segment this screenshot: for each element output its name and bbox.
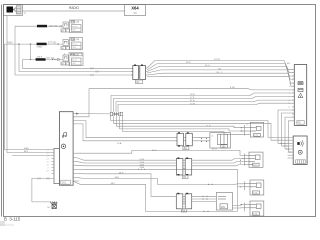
row C label box — [181, 209, 187, 212]
wire strip pin 13 to phone pin 3 — [278, 110, 294, 143]
wire MAS ground feed down left side — [5, 44, 52, 150]
connector box 264 — [61, 54, 70, 66]
svg-text:7: 7 — [289, 90, 290, 92]
wire splice to strip pin 8 — [111, 93, 294, 112]
wire 7A radio to strip pin 4 — [147, 70, 294, 79]
unit icon circle — [61, 144, 65, 148]
strip pins — [292, 69, 294, 121]
svg-text:12: 12 — [288, 107, 290, 109]
right column box B3 — [250, 180, 264, 195]
wire unit to bottom junction bus — [76, 168, 238, 170]
svg-text:hp ar: hp ar — [72, 60, 77, 62]
svg-text:256 B: 256 B — [37, 57, 43, 59]
wire stub phone pin 8 — [288, 157, 291, 159]
strip label box — [297, 121, 304, 125]
wire 38E unit to box 173 — [76, 177, 245, 184]
svg-text:RADIO: RADIO — [69, 6, 80, 10]
svg-text:21 A: 21 A — [140, 158, 145, 161]
row C wires to box — [192, 196, 217, 201]
svg-text:3: 3 — [289, 76, 290, 78]
svg-text:56 G: 56 G — [205, 65, 210, 67]
connector icon in title — [7, 6, 22, 15]
wire splice to strip pin 11 — [118, 103, 294, 112]
svg-text:38 F: 38 F — [111, 183, 116, 185]
row B label box — [183, 175, 189, 178]
connector pair row C — [176, 194, 191, 209]
wire splice to box 171 pin 2 — [120, 116, 245, 131]
wire front-right speaker to radio connector pin 2 — [19, 44, 133, 71]
svg-text:9: 9 — [289, 96, 290, 98]
speaker unit box AVG — [70, 20, 83, 33]
wire — [23, 59, 63, 61]
wire stub phone pin 7 — [288, 154, 291, 156]
row A wires to box — [194, 138, 210, 141]
wire third feed to unit — [12, 155, 52, 157]
svg-text:11: 11 — [288, 103, 290, 105]
phone pins — [291, 137, 293, 158]
right column box B2 — [249, 152, 263, 167]
svg-text:180: 180 — [222, 145, 227, 148]
speaker unit box AR — [69, 53, 83, 66]
svg-text:X64: X64 — [131, 6, 139, 11]
scan smudge bottom-left — [0, 221, 5, 226]
strip warning triangle — [298, 93, 303, 97]
right column box B4 — [250, 201, 264, 216]
wire 38F unit to bottom bus — [73, 181, 237, 211]
speaker row 3 — [23, 53, 84, 66]
speaker unit box AVD — [70, 38, 83, 50]
svg-text:5: 5 — [289, 83, 290, 85]
unit right pins top group — [73, 114, 75, 124]
wires into B1 — [240, 128, 244, 131]
title block — [4, 5, 146, 16]
svg-text:7 A: 7 A — [218, 68, 222, 71]
wire supply feed down left side — [7, 16, 52, 153]
junction dots on relay feed line — [208, 184, 209, 185]
unit icon music — [62, 133, 66, 138]
junction circle — [57, 58, 60, 61]
svg-text:B 3-115: B 3-115 — [4, 217, 21, 222]
unit left connector column — [54, 149, 59, 184]
wire splice to phone pin 2 — [114, 116, 291, 140]
svg-text:25 A: 25 A — [117, 142, 122, 145]
wire — [5, 43, 63, 45]
svg-text:36 G: 36 G — [212, 149, 217, 151]
svg-text:577 HD: 577 HD — [48, 41, 56, 44]
connector pair row B — [176, 159, 191, 176]
wire 38D unit to pair R4 pin 1 — [76, 173, 177, 196]
svg-text:36 G: 36 G — [152, 150, 157, 152]
wire — [15, 25, 63, 27]
connector pair row A — [177, 133, 192, 146]
wire bridge row2 to row3 — [30, 44, 32, 59]
row B wires right — [192, 158, 245, 165]
svg-text:23 A: 23 A — [140, 163, 145, 166]
svg-text:M: M — [48, 207, 50, 209]
long wire y88.7 — [73, 89, 294, 117]
svg-text:82 - C: 82 - C — [217, 72, 223, 74]
strip icon 2 — [298, 88, 303, 91]
svg-text:256A: 256A — [37, 46, 43, 49]
wire splice to strip pin 9 — [114, 96, 295, 111]
speaker row 2 — [5, 38, 83, 51]
component box row C — [216, 193, 232, 211]
junction marks on connector feed wires — [91, 67, 98, 76]
row A label box — [183, 146, 189, 149]
connector CN1 label box — [136, 80, 143, 84]
wire strip pin 15 to phone pin 5 — [285, 117, 294, 149]
splice S2 — [37, 43, 47, 46]
central unit U1 — [59, 112, 73, 186]
wires unit top pins 3/4 to row A — [76, 121, 178, 141]
svg-text:MAS: MAS — [8, 41, 14, 44]
svg-text:55 B: 55 B — [190, 94, 195, 96]
svg-text:hp av: hp av — [72, 26, 77, 28]
wire 21A unit to pair R3 pin 1 — [76, 157, 177, 160]
wire 82C radio to strip pin 5 — [147, 73, 294, 83]
svg-text:11 B: 11 B — [190, 100, 195, 102]
strip icon 1 — [298, 82, 303, 85]
svg-text:575 B: 575 B — [214, 59, 220, 61]
wire 56G radio to strip pin 3 — [147, 67, 294, 76]
svg-text:1: 1 — [289, 69, 290, 71]
svg-text:6: 6 — [289, 86, 290, 88]
svg-text:56 D: 56 D — [186, 62, 191, 64]
unit right pins bottom group — [73, 153, 79, 181]
unit label box — [61, 180, 71, 184]
ground symbol — [50, 202, 57, 209]
right column box B1 — [250, 122, 263, 137]
phone component — [293, 136, 307, 164]
svg-text:57 M: 57 M — [190, 103, 195, 105]
svg-text:577 AR: 577 AR — [47, 57, 55, 60]
unit left pins — [52, 150, 55, 174]
wire 575B radio to strip pin 1 — [147, 61, 294, 70]
phone label comb box — [296, 160, 306, 164]
wire 56D radio to strip pin 2 — [147, 64, 294, 73]
svg-text:2: 2 — [289, 72, 290, 74]
svg-text:8 1B: 8 1B — [230, 87, 235, 89]
wire splice to box 171 pin 3 — [123, 116, 245, 134]
svg-text:90: 90 — [133, 11, 137, 15]
wire rear speaker to radio connector pin 1 — [23, 60, 133, 69]
svg-text:38 E: 38 E — [115, 177, 120, 179]
svg-text:hp av: hp av — [72, 44, 77, 46]
wire 22A unit to pair R3 pin 2 — [76, 161, 177, 163]
svg-text:10: 10 — [288, 100, 290, 102]
wire radio to strip pin 6 — [147, 77, 294, 87]
right strip connector — [294, 65, 306, 126]
svg-text:8: 8 — [289, 93, 290, 95]
wire strip pin 14 to phone pin 4 — [282, 113, 295, 146]
speaker row 1 — [15, 20, 83, 33]
splice X1 on antenna line — [76, 113, 110, 115]
splice S3 — [36, 58, 46, 61]
svg-text:MAS: MAS — [24, 147, 29, 150]
wire 23A unit to pair R3 pin 3 — [76, 164, 177, 167]
phone icon — [297, 140, 303, 146]
wire strip pin 16 to phone pin 6 — [289, 121, 295, 152]
svg-text:38 D: 38 D — [119, 172, 124, 174]
svg-text:24 A: 24 A — [140, 166, 145, 169]
wire splice to phone pin 1 — [111, 116, 291, 137]
radio connector CN1 — [133, 66, 146, 80]
bottom long line junctions — [237, 169, 239, 211]
wire front-left speaker to radio connector pin 3 — [15, 26, 133, 75]
wire splice to strip pin 10 — [116, 100, 294, 112]
svg-text:261: 261 — [62, 181, 67, 185]
ground wire — [32, 178, 54, 202]
svg-text:4: 4 — [289, 79, 290, 81]
connector box 262 — [61, 22, 70, 32]
svg-text:259: 259 — [221, 206, 226, 209]
wire splice to box 171 pin 1 — [117, 116, 245, 128]
component box row A — [210, 133, 231, 148]
svg-text:577 HG: 577 HG — [50, 25, 58, 28]
wire 36G unit to box 172 — [76, 150, 245, 155]
connector box 263 — [61, 40, 70, 50]
svg-text:21 B: 21 B — [206, 125, 211, 127]
wire stub box 173 pin 2 — [238, 186, 244, 188]
splice S1 — [37, 25, 47, 28]
